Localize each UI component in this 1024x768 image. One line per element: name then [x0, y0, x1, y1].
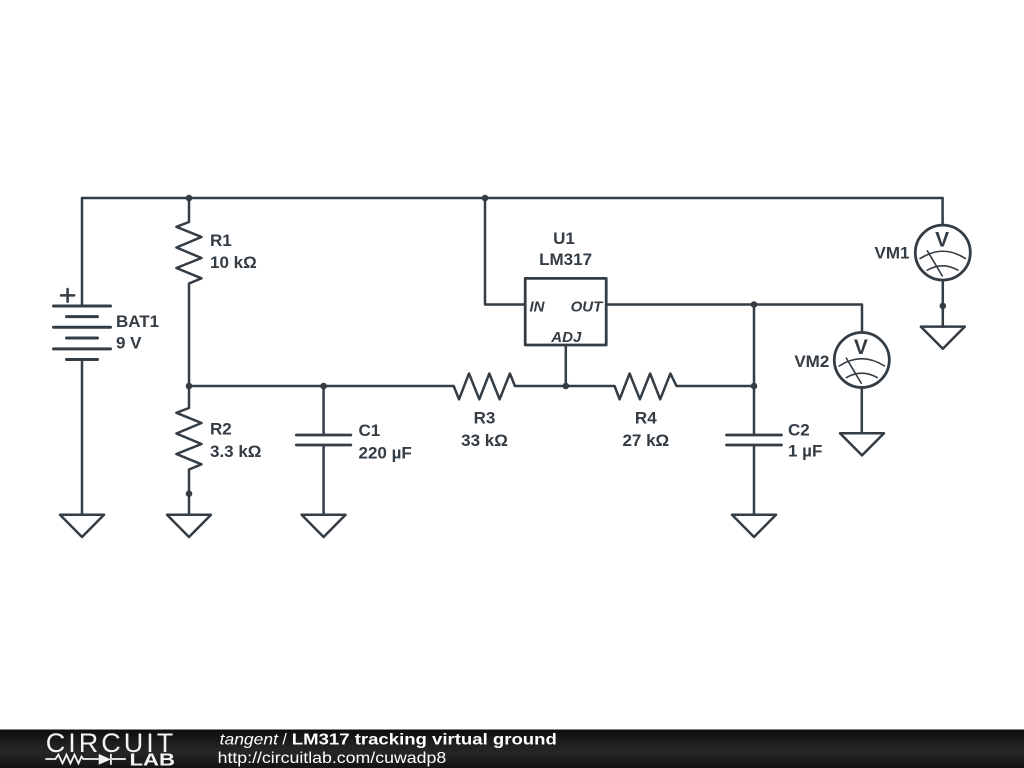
svg-text:LM317: LM317 [539, 250, 592, 269]
svg-text:VM2: VM2 [794, 352, 829, 371]
svg-text:OUT: OUT [571, 298, 605, 315]
svg-text:http://circuitlab.com/cuwadp8: http://circuitlab.com/cuwadp8 [218, 750, 447, 767]
svg-text:R4: R4 [635, 409, 657, 428]
svg-text:3.3 kΩ: 3.3 kΩ [210, 442, 261, 461]
svg-text:10 kΩ: 10 kΩ [210, 253, 257, 272]
svg-text:V: V [854, 336, 868, 359]
svg-text:R1: R1 [210, 231, 232, 250]
svg-text:27 kΩ: 27 kΩ [622, 431, 669, 450]
svg-text:220 µF: 220 µF [359, 444, 412, 463]
svg-text:1 µF: 1 µF [788, 442, 822, 461]
svg-text:U1: U1 [553, 229, 575, 248]
svg-text:ADJ: ADJ [550, 329, 582, 346]
svg-text:LM317 tracking virtual ground: LM317 tracking virtual ground [292, 731, 557, 748]
svg-text:C1: C1 [359, 421, 381, 440]
svg-text:/: / [282, 731, 287, 748]
svg-text:R3: R3 [474, 409, 496, 428]
svg-text:VM1: VM1 [875, 244, 910, 263]
svg-text:C2: C2 [788, 421, 810, 440]
svg-text:BAT1: BAT1 [116, 312, 159, 331]
svg-text:33 kΩ: 33 kΩ [461, 431, 508, 450]
svg-text:LAB: LAB [130, 749, 176, 768]
svg-text:9 V: 9 V [116, 334, 142, 353]
svg-text:tangent: tangent [220, 731, 279, 748]
svg-text:R2: R2 [210, 420, 232, 439]
svg-text:IN: IN [530, 298, 546, 315]
svg-text:V: V [935, 229, 949, 252]
